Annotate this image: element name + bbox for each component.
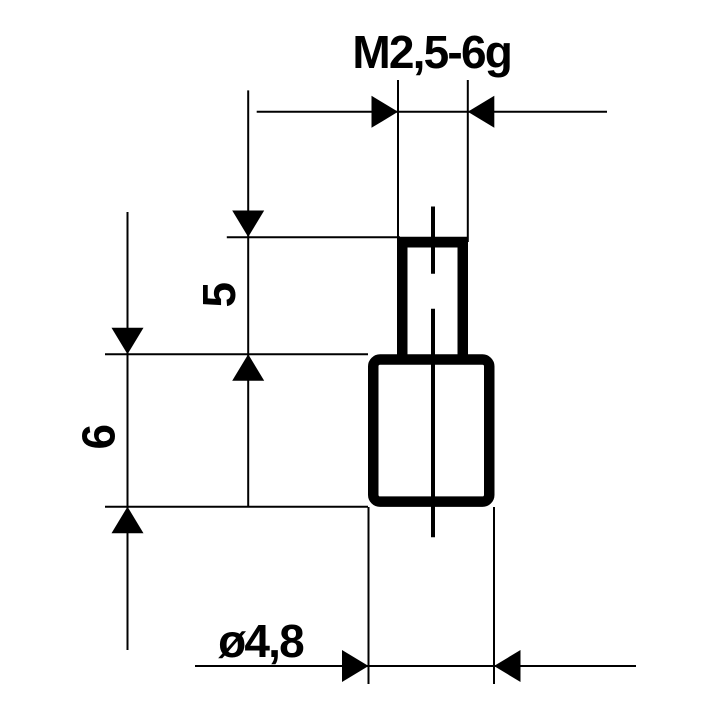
arrow left-pointing at right thread edge (468, 96, 495, 128)
extension line at body top (105, 353, 368, 355)
svg-text:M2,5-6g: M2,5-6g (352, 26, 511, 78)
body (rounded rectangle) (373, 360, 489, 502)
dimension line (body diameter) (195, 665, 636, 667)
arrow down at thread top (232, 211, 264, 238)
arrow left-pointing at body right edge (494, 650, 521, 682)
arrow up at body bottom (112, 507, 144, 534)
extension line below body left (368, 507, 370, 684)
centerline upper segment (431, 207, 435, 274)
extension line left of thread (397, 80, 399, 242)
centerline lower segment (431, 309, 435, 538)
arrow right-pointing at left thread edge (372, 96, 399, 128)
extension line at thread top (227, 236, 400, 238)
arrow up at body top (232, 354, 264, 381)
arrow right-pointing at body left edge (342, 650, 369, 682)
dimension line (thread width) (257, 111, 607, 113)
threaded stud outline (397, 237, 468, 355)
extension line below body right (493, 507, 495, 684)
dimension line for 6 (vertical) (127, 212, 129, 650)
extension line at body bottom (105, 506, 368, 508)
arrow down at body top (112, 328, 144, 355)
extension line right of thread (467, 80, 469, 242)
dimension line for 5 (vertical) (247, 90, 249, 506)
svg-text:5: 5 (193, 282, 245, 308)
svg-text:6: 6 (72, 424, 124, 450)
svg-text:ø4,8: ø4,8 (218, 615, 304, 667)
